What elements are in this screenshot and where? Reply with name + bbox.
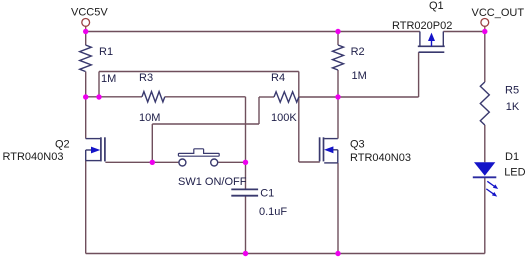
svg-text:SW1 ON/OFF: SW1 ON/OFF (178, 176, 247, 188)
svg-text:RTR040N03: RTR040N03 (3, 151, 64, 163)
svg-text:1M: 1M (101, 73, 116, 85)
svg-text:10M: 10M (139, 112, 160, 124)
junction node C (Q2 gate / SW1 left) (150, 160, 155, 165)
wire R2 node to Q1 gate corner (338, 96, 419, 98)
wire top rail right (Q1 to VCC_OUT) (443, 31, 485, 33)
wire C1 top (245, 162, 247, 189)
wire R2 bottom stub (337, 70, 339, 97)
wire Q3 gate vertical (298, 97, 300, 162)
svg-text:100K: 100K (271, 112, 297, 124)
wire Q3 drain vertical (337, 97, 339, 139)
wire top rail left (VCC5V to Q1) (86, 31, 420, 33)
wire Q2 drain vertical (85, 97, 87, 139)
wire down to SW1 left junction (151, 124, 153, 162)
junction C1 on ground rail (243, 251, 248, 256)
resistor R5 (480, 82, 489, 125)
svg-text:D1: D1 (505, 151, 519, 163)
LED D1 (473, 162, 498, 196)
junction node D (SW1 right / C1 top / R3 right) (243, 160, 248, 165)
switch SW1 (178, 149, 219, 166)
svg-text:Q1: Q1 (429, 0, 444, 12)
wire R4 right vertical upper (298, 72, 300, 98)
svg-text:0.1uF: 0.1uF (259, 206, 287, 218)
wire node to R3 left (86, 96, 142, 98)
wire R4 left vertical (258, 97, 260, 124)
junction node A stub (96, 94, 101, 99)
wire R2 top stub (337, 32, 339, 46)
wire D1 cathode to ground rail (484, 177, 486, 253)
wire Q2 source vertical (85, 161, 87, 254)
wire R4 left stub (259, 96, 274, 98)
wire corner down to SW1 right (245, 97, 247, 163)
junction VCC_OUT terminal (482, 29, 487, 34)
transistor Q2 (86, 137, 105, 161)
svg-text:RTR040N03: RTR040N03 (350, 152, 411, 164)
svg-text:Q3: Q3 (350, 139, 365, 151)
wire SW1 right to C1 node (218, 161, 245, 163)
capacitor C1 (231, 189, 258, 195)
svg-text:RTR020P02: RTR020P02 (392, 20, 452, 32)
wire R1 top stub (85, 32, 87, 46)
wire 1M-node horizontal y=71.5 (99, 71, 299, 73)
wire R1 bottom to node (85, 72, 87, 98)
svg-text:VCC_OUT: VCC_OUT (472, 7, 525, 19)
transistor Q1 (418, 32, 445, 53)
junction node A (R1 bottom / Q2 drain / R3 left) (83, 94, 88, 99)
svg-text:R2: R2 (351, 46, 365, 58)
svg-text:LED: LED (504, 167, 525, 179)
wire y=124 horizontal (152, 123, 259, 125)
wire R3 right to corner (165, 96, 246, 98)
junction R2 top on VCC rail (335, 29, 340, 34)
junction node B (R2 bottom / Q3 drain / Q1 gate) (335, 94, 340, 99)
svg-text:R5: R5 (505, 85, 519, 97)
resistor R2 (333, 45, 344, 70)
transistor Q3 (320, 137, 338, 163)
resistor R4 (274, 92, 299, 102)
svg-text:1M: 1M (352, 70, 367, 82)
svg-text:1K: 1K (506, 101, 520, 113)
wire Q2 gate to SW1 left (105, 161, 178, 163)
svg-text:C1: C1 (260, 188, 274, 200)
svg-text:R4: R4 (271, 72, 285, 84)
svg-text:R3: R3 (139, 72, 153, 84)
wire VCC_OUT to R5 (484, 32, 486, 83)
junction VCC5V terminal (83, 29, 88, 34)
wire Q3 source vertical (337, 163, 339, 254)
svg-text:VCC5V: VCC5V (71, 6, 108, 18)
wire R5 to D1 (484, 125, 486, 162)
resistor R1 (80, 45, 92, 72)
junction Q3 source on ground rail (335, 251, 340, 256)
wire R4 right to R2 node (299, 96, 338, 98)
wire bottom ground rail (86, 253, 485, 255)
power symbol VCC_OUT (481, 19, 489, 32)
wire C1 bottom (245, 196, 247, 254)
wire node stub x=99 (98, 72, 100, 98)
svg-text:Q2: Q2 (55, 139, 70, 151)
power symbol VCC5V (82, 19, 90, 32)
svg-text:R1: R1 (99, 46, 113, 58)
resistor R3 (142, 92, 165, 102)
wire Q3 gate horizontal (299, 161, 320, 163)
wire Q1 gate vertical (418, 52, 420, 97)
